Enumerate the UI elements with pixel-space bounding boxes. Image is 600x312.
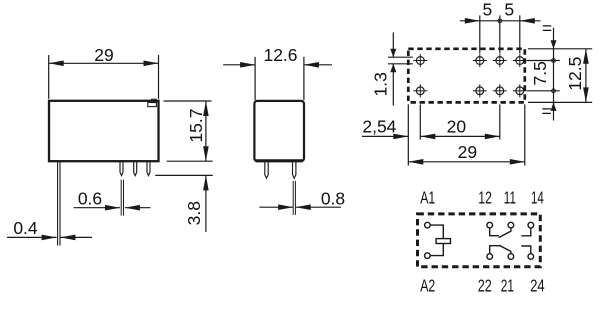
svg-text:5: 5: [504, 0, 514, 19]
dimension 29 line with arrows (side view): [49, 62, 159, 64]
svg-text:24: 24: [530, 275, 545, 295]
front pin at x=294.2: [293, 161, 296, 178]
svg-text:12.5: 12.5: [565, 57, 585, 91]
terminal 12 circle: [487, 222, 493, 228]
svg-text:22: 22: [478, 275, 492, 295]
coil wire from A1: [430, 225, 443, 239]
short pin at x=148.5 (side view): [147, 161, 150, 175]
svg-text:20: 20: [447, 116, 467, 136]
svg-text:7.5: 7.5: [530, 61, 550, 85]
dimension 29 extension lines (side view): [48, 55, 50, 99]
svg-text:5: 5: [483, 0, 493, 19]
hole 22: [476, 87, 484, 95]
svg-text:2,54: 2,54: [362, 116, 396, 136]
1.3 dimension line with outside arrows: [392, 32, 394, 57]
svg-text:0.8: 0.8: [321, 189, 345, 209]
dimension 12.6 line with outside arrows: [223, 64, 255, 66]
thin pin cross-section below right front pin: [292, 181, 294, 215]
svg-text:=: =: [541, 101, 551, 121]
dimension 15.7 extension lines: [164, 100, 212, 102]
hole A2: [416, 87, 424, 95]
front pin at x=266.5: [265, 161, 268, 178]
pin tip level extension line (3.8): [155, 174, 212, 176]
dimension 0.4 line with outside arrows: [7, 236, 57, 238]
front view thick bottom edge: [255, 159, 303, 162]
hole A1: [416, 57, 424, 65]
terminal 11 circle: [508, 222, 514, 228]
5 5 dimension extension lines: [479, 15, 481, 53]
svg-text:15.7: 15.7: [186, 109, 206, 143]
movable contact blade from 11: [499, 228, 511, 238]
svg-text:29: 29: [458, 142, 477, 162]
1.3 hole diameter tangent lines: [388, 56, 413, 58]
hole 14: [516, 57, 524, 65]
hole 24: [516, 87, 524, 95]
svg-text:A2: A2: [420, 275, 435, 295]
NC fixed contact wire from 12: [490, 228, 499, 236]
coil: [436, 239, 450, 244]
svg-text:A1: A1: [420, 187, 435, 207]
svg-text:12: 12: [478, 187, 492, 207]
12.5 dimension line with arrows: [585, 49, 587, 103]
PCB layout dashed outline: [408, 49, 525, 103]
29 dimension line with arrows (PCB): [408, 161, 525, 163]
svg-text:11: 11: [504, 187, 516, 207]
hole 12: [476, 57, 484, 65]
20 dimension line with arrows: [420, 135, 500, 137]
svg-text:14: 14: [531, 187, 544, 207]
terminal 22 circle: [487, 254, 493, 260]
short pin at x=121.5 (side view): [120, 161, 123, 175]
terminal A1 circle: [425, 222, 431, 228]
NC fixed contact wire from 22: [490, 246, 500, 254]
schematic dashed outline: [418, 214, 541, 267]
dimension 15.7 line with arrows: [205, 101, 207, 161]
vent nib mark on body top right: [151, 99, 156, 102]
thin pin continuation below first short pin: [120, 180, 122, 216]
terminal 14 circle: [528, 222, 534, 228]
relay body front view: [254, 101, 304, 161]
terminal 24 circle: [528, 254, 534, 260]
2,54 dimension line with arrow: [362, 135, 408, 137]
dimension 0.6 line with outside arrows: [74, 207, 120, 209]
svg-text:0.6: 0.6: [78, 189, 102, 209]
dimension 3.8 line with outside arrow: [205, 175, 207, 232]
right side extension lines (PCB): [528, 48, 592, 50]
short pin at x=135.2 (side view): [134, 161, 137, 175]
7.5 chain dimension line with outside arrows and dots: [553, 28, 555, 121]
relay body side view: [49, 101, 159, 161]
coil wire to A2: [430, 244, 443, 256]
NO fixed contact wire from 14: [521, 228, 531, 236]
dimension 12.6 extension lines: [254, 57, 256, 100]
svg-text:21: 21: [501, 275, 514, 295]
hole 21: [496, 87, 504, 95]
svg-text:3.8: 3.8: [184, 201, 204, 225]
hole 11: [496, 57, 504, 65]
left long pin (side view): [57, 161, 59, 245]
dimension 0.8 line with outside arrows: [259, 206, 293, 208]
NO fixed contact wire from 24 (gray): [521, 246, 531, 254]
svg-text:1.3: 1.3: [371, 72, 391, 96]
5 5 dimension line, arrows and chain dot: [460, 20, 541, 22]
svg-text:0.4: 0.4: [13, 218, 38, 238]
svg-text:12.6: 12.6: [263, 45, 297, 65]
svg-text:=: =: [542, 18, 552, 38]
movable contact blade from 21: [499, 245, 511, 253]
terminal 21 circle: [508, 254, 514, 260]
extension lines below PCB outline: [407, 104, 409, 165]
svg-text:29: 29: [94, 45, 113, 65]
terminal A2 circle: [425, 253, 431, 259]
